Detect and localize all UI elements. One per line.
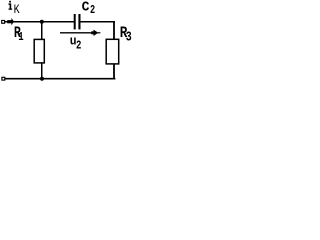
svg-text:2: 2	[90, 4, 95, 18]
terminal bottom-left	[2, 77, 5, 80]
label u2	[70, 34, 77, 49]
svg-text:C: C	[82, 0, 90, 16]
svg-text:K: K	[14, 4, 20, 17]
current arrow iK	[7, 18, 14, 25]
voltage arrow u2	[60, 30, 100, 36]
wire R1 top lead	[41, 22, 43, 40]
terminal top-left	[2, 20, 5, 23]
wire R3 bottom lead	[113, 64, 115, 80]
capacitor C2	[74, 14, 81, 29]
svg-text:2: 2	[76, 40, 81, 54]
wire R3 top lead	[113, 21, 115, 39]
resistor R1	[34, 39, 44, 63]
wire bottom	[5, 78, 116, 80]
label i_K	[9, 1, 13, 10]
label R1	[14, 24, 22, 42]
svg-text:1: 1	[18, 31, 23, 45]
wire top	[5, 21, 115, 23]
label C2	[82, 0, 90, 16]
node junction bottom	[40, 77, 44, 81]
svg-text:3: 3	[126, 29, 132, 45]
wire R1 bottom lead	[41, 63, 43, 79]
resistor R3	[106, 39, 119, 64]
label R3	[120, 25, 128, 43]
node junction top	[40, 20, 44, 24]
